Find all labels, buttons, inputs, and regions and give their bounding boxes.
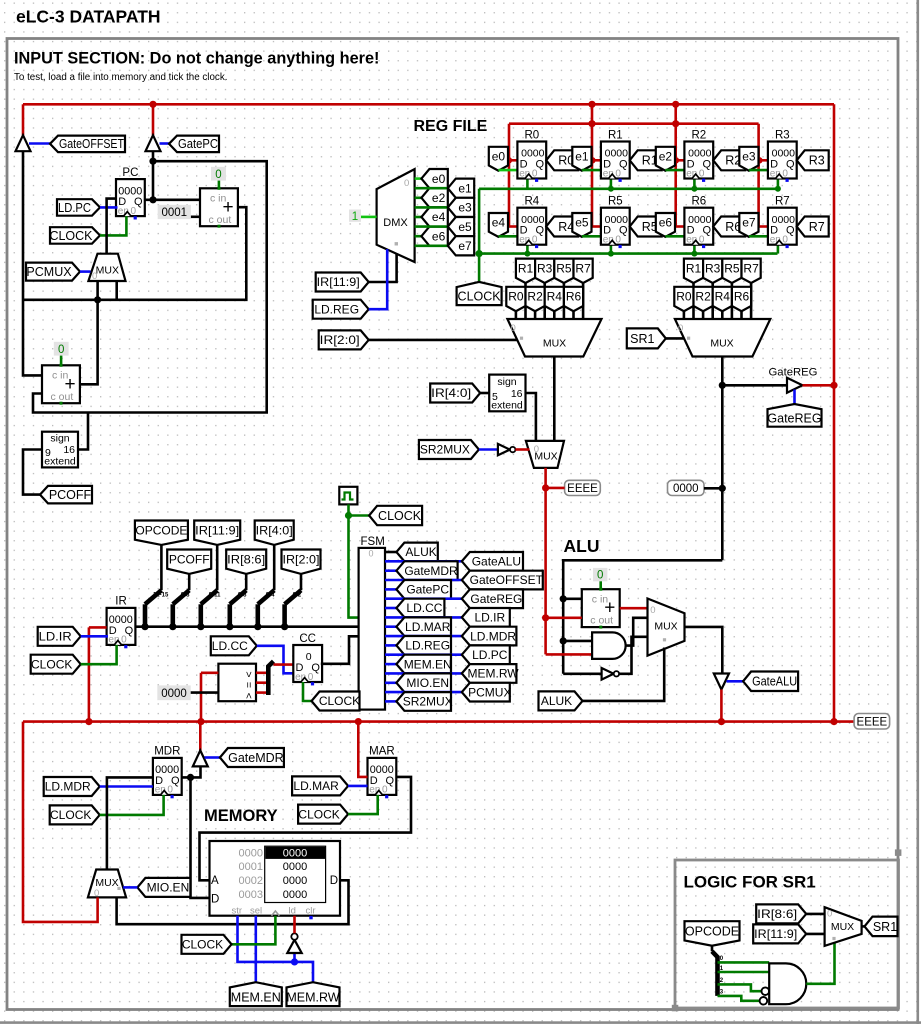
wire en e0 [498, 169, 517, 172]
wire sel R5 [731, 283, 734, 320]
svg-text:0: 0 [782, 168, 788, 179]
wire clock to PC [100, 216, 126, 235]
svg-text:MEM.EN: MEM.EN [404, 657, 452, 671]
wire MAR Q to memory A [200, 777, 412, 880]
mux SR2 read (left) [507, 319, 601, 357]
tunnel LD.CC [211, 636, 257, 655]
node B to adder [560, 595, 567, 602]
tunnel e5 (dmx) [448, 217, 474, 236]
svg-text:CLOCK: CLOCK [182, 938, 223, 952]
tunnel MEM.EN [230, 982, 282, 1006]
svg-text:R3: R3 [705, 262, 721, 276]
svg-text:0-4: 0-4 [266, 593, 275, 599]
tunnel R0 out [546, 150, 578, 170]
svg-text:GatePC: GatePC [178, 137, 218, 151]
tunnel e6 (dmx) [421, 227, 447, 246]
wire sel R6 [572, 311, 575, 319]
svg-text:EEEE: EEEE [857, 716, 888, 728]
node clock R4 [524, 251, 530, 257]
tunnel e7 (dmx) [448, 236, 474, 255]
svg-text:GateMDR: GateMDR [228, 751, 284, 765]
svg-text:0: 0 [404, 178, 409, 189]
svg-text:R4: R4 [547, 290, 563, 304]
mux SR1 read (right) [675, 319, 770, 357]
wire opcode bit1 [718, 971, 770, 974]
wire sel R7 [582, 283, 585, 320]
node bus right rail [830, 718, 837, 725]
svg-text:SR2MUX: SR2MUX [420, 443, 470, 457]
wire red drop R3 column [757, 124, 760, 227]
tunnel e5 [572, 213, 591, 237]
splitter IR[11:9] [216, 545, 219, 590]
tunnel R3 sel [535, 259, 554, 283]
wire D feed R0 [509, 159, 518, 162]
wire ALU mux out [685, 627, 723, 674]
svg-text:16: 16 [511, 388, 523, 400]
svg-text:R0: R0 [676, 290, 692, 304]
wire DMX out e7 [415, 245, 448, 248]
svg-text:0: 0 [215, 169, 221, 181]
register MAR [368, 758, 397, 795]
wire ALUK select [583, 648, 665, 701]
node 0000 probe tap [719, 485, 726, 492]
tunnel GatePC (fsm) [396, 580, 451, 599]
node clock tunnel tap [345, 512, 352, 519]
svg-text:MIO.EN: MIO.EN [147, 881, 190, 895]
wire IR4:0 to extender [480, 392, 489, 395]
wire LD.REG to DMX en [369, 249, 388, 309]
svg-text:MUX: MUX [654, 621, 677, 633]
svg-text:sign: sign [497, 376, 516, 388]
wire PC+offset net [23, 151, 42, 375]
wire MDR Q to memory D [191, 777, 210, 898]
tunnel LD.IR [38, 627, 81, 646]
node bus CC [197, 718, 204, 725]
svg-text:R1: R1 [608, 129, 623, 141]
wire sel R4 [553, 311, 556, 319]
svg-text:0: 0 [58, 344, 64, 356]
svg-text:GateOFFSET: GateOFFSET [470, 573, 544, 587]
tunnel R5 out [630, 217, 662, 237]
tunnel CLOCK (regfile) [457, 282, 502, 305]
wire red to GateMDR buffer [199, 722, 202, 751]
svg-text:REG FILE: REG FILE [414, 118, 488, 135]
tunnel LD.PC (fsm) [462, 645, 510, 664]
wire inverter out [515, 448, 529, 451]
svg-text:LD.PC: LD.PC [58, 201, 91, 215]
tunnel R1 out [630, 150, 662, 170]
tunnel GateALU (fsm) [462, 552, 523, 571]
constant 0001 [158, 205, 191, 219]
node bus MAR [355, 718, 362, 725]
svg-text:CC: CC [299, 633, 316, 645]
svg-text:R7: R7 [743, 262, 759, 276]
svg-text:e6: e6 [432, 229, 446, 243]
red power bus top [23, 103, 834, 106]
wire adder out [620, 607, 648, 610]
tunnel ALUK (fsm) [396, 543, 437, 562]
svg-text:R5: R5 [556, 262, 572, 276]
adder U3 (ALU) [582, 589, 620, 627]
svg-text:e1: e1 [458, 181, 472, 195]
svg-text:D: D [330, 875, 338, 887]
svg-text:LD.IR: LD.IR [39, 630, 72, 644]
tunnel SR2MUX (fsm) [396, 692, 451, 711]
constant 0 (offset adder cin) [54, 342, 69, 356]
tunnel R7 out [797, 217, 829, 237]
register PC [116, 179, 145, 216]
tunnel PCOFF (ir field) [167, 550, 211, 574]
node GateREG tap [719, 382, 726, 389]
node r1a [588, 101, 595, 108]
wire sign extend in [23, 450, 42, 495]
wire sel R1 [692, 283, 695, 320]
tunnel IR[2:0] (ir field) [282, 550, 321, 574]
wire FSM out LD.REG [385, 644, 396, 647]
wire probe 0000 [704, 487, 722, 490]
svg-text:0: 0 [308, 672, 314, 683]
register R1 [601, 142, 630, 179]
svg-text:e1: e1 [575, 150, 589, 164]
tunnel e0 [489, 147, 508, 171]
wire comparator B [191, 691, 219, 694]
splitter CC flags [256, 671, 266, 674]
wire clock R7 [777, 245, 780, 254]
svg-text:0001: 0001 [162, 207, 188, 219]
wire PCMUX input 2 drop [115, 281, 118, 300]
svg-text:R6: R6 [691, 196, 706, 208]
svg-text:e4: e4 [492, 216, 506, 230]
svg-text:PCOFF: PCOFF [169, 552, 210, 566]
svg-text:CLOCK: CLOCK [31, 657, 72, 671]
wire FSM out LD.MDR [385, 635, 462, 638]
wire D feed R2 [676, 159, 685, 162]
svg-text:0000: 0000 [239, 847, 263, 859]
wire red IR drop [88, 627, 91, 721]
tunnel e6 [656, 213, 675, 237]
wire CC clock [303, 682, 312, 701]
svg-text:SR1: SR1 [630, 332, 654, 346]
wire D feed R6 [676, 225, 685, 228]
svg-text:MUX: MUX [831, 921, 854, 933]
tunnel OPCODE (logic) [685, 921, 740, 946]
svg-text:<: < [243, 693, 255, 699]
svg-text:0: 0 [532, 168, 538, 179]
node str/rw [291, 958, 298, 965]
tunnel LD.PC [57, 199, 100, 216]
node r2b [672, 120, 679, 127]
wire PCMUX select [80, 270, 91, 273]
tunnel R3 sel [703, 259, 722, 283]
tunnel R1 sel [684, 259, 703, 283]
wire DMX out e3 [415, 206, 448, 209]
tunnel GateMDR [220, 748, 284, 767]
wire FSM out LD.PC [385, 653, 462, 656]
node splitter IR[8:6] [226, 623, 233, 630]
buffer GateREG (tri-state) [787, 378, 803, 393]
wire FSM out ALUK [385, 551, 396, 554]
wire sel R3 [543, 283, 546, 320]
wire clock R0 [526, 179, 529, 189]
svg-text:0: 0 [699, 235, 705, 246]
svg-text:ALUK: ALUK [541, 694, 572, 708]
svg-text:0: 0 [167, 785, 173, 796]
tunnel LD.IR (fsm) [462, 608, 510, 627]
tunnel R6 out [713, 217, 745, 237]
svg-text:SR2MUX: SR2MUX [403, 695, 453, 709]
svg-text:0: 0 [650, 605, 655, 616]
clock generator [339, 487, 357, 505]
wire D feed R5 [592, 225, 601, 228]
svg-text:MUX: MUX [96, 265, 119, 277]
tunnel R4 out [546, 217, 578, 237]
svg-text:0000: 0000 [283, 875, 307, 887]
splitter OPCODE [160, 545, 163, 590]
node A operand to adder [542, 614, 549, 621]
wire GateMDR control [205, 756, 220, 759]
IR output bus [135, 625, 358, 628]
wire opcode bit3 [718, 996, 760, 1001]
wire FSM out SR2MUX [385, 700, 396, 703]
wire adder out to PCMUX input 2 [98, 207, 247, 300]
splitter IR[4:0] [273, 545, 276, 590]
tunnel GatePC [169, 136, 219, 153]
svg-text:ld: ld [289, 906, 296, 917]
tunnel e2 [656, 147, 675, 171]
node PCMUX input 1 [94, 296, 101, 303]
svg-text:R2: R2 [527, 290, 543, 304]
tunnel LD.REG [313, 300, 369, 319]
svg-text:A: A [211, 875, 219, 887]
svg-text:MEM.RW: MEM.RW [468, 667, 520, 681]
wire D feed R3 [759, 159, 768, 162]
svg-text:R3: R3 [775, 129, 790, 141]
tunnel e7 [739, 213, 758, 237]
svg-text:GateREG: GateREG [470, 592, 522, 606]
svg-text:IR: IR [115, 596, 127, 608]
svg-text:0: 0 [597, 570, 603, 582]
inverted input bubble 3 [760, 997, 768, 1005]
adder U2 (PC+offset) [42, 365, 80, 403]
svg-text:CLOCK: CLOCK [298, 807, 339, 821]
svg-text:0: 0 [534, 444, 539, 455]
wire DMX out e6 [415, 235, 422, 238]
tunnel CLOCK (source) [369, 506, 422, 525]
svg-text:=: = [243, 682, 255, 688]
svg-text:ALUK: ALUK [405, 545, 436, 559]
node bus IR [85, 718, 92, 725]
svg-text:R4: R4 [524, 196, 539, 208]
wire memory Dout loop [117, 880, 349, 924]
node red bus / GatePC [149, 101, 156, 108]
wire en e2 [665, 169, 684, 172]
tunnel R7 sel [574, 259, 593, 283]
tunnel LD.MDR [44, 777, 100, 796]
wire LD.MAR [348, 785, 367, 788]
svg-text:LD.CC: LD.CC [406, 601, 442, 615]
svg-text:LD.IR: LD.IR [474, 611, 505, 625]
svg-text:IR[11:9]: IR[11:9] [754, 927, 797, 941]
svg-text:LD.MAR: LD.MAR [405, 620, 451, 634]
tunnel R2 out [713, 150, 745, 170]
svg-text:R3: R3 [809, 154, 825, 168]
tunnel IR[11:9] (dmx select) [316, 273, 369, 292]
constant 0000 (comparator) [157, 685, 190, 700]
tunnel R6 sel [732, 287, 751, 311]
red reg feed bus [509, 122, 759, 125]
svg-text:GateREG: GateREG [769, 366, 818, 378]
tunnel GateOFFSET (fsm) [462, 571, 543, 590]
node r2a [672, 101, 679, 108]
wire GateALU control [727, 680, 744, 683]
probe EEEE [565, 480, 601, 495]
buffer GatePC (tri-state) [146, 135, 161, 151]
tunnel ALUK [539, 691, 583, 710]
svg-text:e5: e5 [575, 216, 589, 230]
svg-text:e2: e2 [659, 150, 673, 164]
node splitter IR[4:0] [254, 623, 261, 630]
buffer GateMDR (tri-state) [193, 750, 208, 766]
tunnel SR1 (select) [627, 328, 666, 348]
probe EEEE (bus) [854, 714, 890, 730]
wire to GateREG buffer [722, 384, 787, 387]
svg-text:CLOCK: CLOCK [458, 290, 502, 304]
tunnel GateMDR (fsm) [396, 561, 457, 580]
wire PC Q net vertical [152, 151, 155, 200]
tunnel IR[11:9] (ir field) [194, 521, 240, 545]
svg-text:0: 0 [511, 323, 516, 334]
svg-text:0: 0 [121, 635, 127, 646]
wire sel R3 [711, 283, 714, 320]
svg-text:0: 0 [678, 323, 683, 334]
wire FSM out GatePC [385, 588, 396, 591]
register R6 [684, 208, 713, 245]
node splitter IR[11:9] [197, 623, 204, 630]
svg-text:GateOFFSET: GateOFFSET [59, 137, 124, 151]
svg-text:D: D [211, 894, 219, 906]
constant 0 (ALU adder cin) [593, 568, 607, 581]
svg-text:LD.PC: LD.PC [472, 648, 508, 662]
wire red drop R1 column [591, 104, 594, 226]
node D R1 [589, 157, 595, 163]
wire red drop R2 column [674, 104, 677, 226]
node splitter OPCODE [141, 623, 148, 630]
tunnel e0 (dmx) [421, 169, 447, 188]
svg-text:0: 0 [131, 206, 137, 217]
svg-text:IR[11:9]: IR[11:9] [317, 275, 360, 289]
tunnel CLOCK (PC) [50, 227, 100, 244]
svg-text:OPCODE: OPCODE [685, 924, 739, 938]
demux DMX [377, 169, 415, 262]
svg-text:MIO.EN: MIO.EN [406, 676, 449, 690]
tunnel MIO.EN (fsm) [396, 673, 451, 692]
svg-text:PCMUX: PCMUX [468, 685, 511, 699]
wire opcode bit2 [718, 984, 762, 991]
NOT gate (ALU) [602, 668, 614, 680]
register IR [107, 608, 136, 645]
wire DMX out e2 [415, 197, 422, 200]
tunnel R0 sel [506, 287, 525, 311]
node PC Q upper [149, 158, 156, 165]
tunnel LD.MDR (fsm) [462, 627, 517, 646]
wire CC D [274, 663, 294, 666]
logic box for SR1 [675, 860, 899, 1008]
svg-text:EEEE: EEEE [567, 483, 598, 495]
wire LD.PC to en [100, 206, 118, 209]
wire sel net [255, 916, 258, 983]
red result bus (EEEE) [23, 720, 854, 723]
svg-text:e7: e7 [458, 239, 472, 253]
svg-text:R1: R1 [686, 262, 702, 276]
svg-text:MEM.RW: MEM.RW [286, 990, 339, 1004]
wire cin 2 [60, 356, 63, 366]
wire FSM out LD.IR [385, 616, 462, 619]
tunnel MIO.EN [137, 878, 190, 897]
svg-text:0002: 0002 [239, 875, 263, 887]
svg-text:PCMUX: PCMUX [26, 265, 72, 279]
tunnel R7 sel [742, 259, 761, 283]
wire en e5 [582, 235, 601, 238]
svg-text:IR[2:0]: IR[2:0] [283, 552, 320, 566]
wire mux to SR1 [862, 925, 865, 928]
tunnel CLOCK (CC) [312, 692, 360, 711]
svg-text:0: 0 [94, 888, 99, 899]
mux SR1 select [825, 907, 862, 946]
svg-text:+: + [64, 374, 75, 395]
tunnel CLOCK (IR) [31, 655, 81, 674]
wire FSM out GateALU [385, 560, 462, 563]
tunnel R6 sel [564, 287, 583, 311]
window edge bottom [0, 1021, 921, 1024]
green clock bus row1 [479, 188, 777, 191]
splitter IR[8:6] [245, 574, 248, 590]
tunnel e3 (dmx) [448, 198, 474, 217]
tunnel R5 sel [554, 259, 573, 283]
green clock riser [478, 189, 481, 282]
node splitter IR[2:0] [281, 623, 288, 630]
svg-text:0000: 0000 [283, 848, 307, 860]
wire clock R2 [693, 179, 696, 189]
node D R2 [673, 157, 679, 163]
svg-text:16: 16 [63, 444, 75, 456]
node r1b [588, 120, 595, 127]
wire A operand to AND [546, 653, 593, 656]
wire LD.CC [257, 646, 294, 674]
tunnel LD.CC (fsm) [396, 599, 444, 618]
mux ALU result [648, 599, 685, 656]
svg-text:R2: R2 [695, 290, 711, 304]
wire sel R6 [740, 311, 743, 319]
node D R0 [506, 157, 512, 163]
wire sel R0 [515, 311, 518, 319]
wire FSM out PCMUX [385, 691, 462, 694]
wire memory clock [232, 916, 276, 945]
wire sel R2 [702, 311, 705, 319]
svg-text:PC: PC [122, 167, 138, 179]
svg-text:GateMDR: GateMDR [404, 564, 458, 578]
tunnel e2 (dmx) [421, 188, 447, 207]
wire en e1 [582, 169, 601, 172]
svg-text:FSM: FSM [361, 536, 385, 548]
svg-text:LD.CC: LD.CC [212, 639, 248, 653]
svg-text:R7: R7 [809, 220, 825, 234]
tunnel R5 sel [722, 259, 741, 283]
wire GatePC control [160, 142, 170, 145]
memory RAM [210, 841, 341, 916]
tunnel GateOFFSET [50, 136, 125, 153]
svg-text:LD.MAR: LD.MAR [293, 779, 339, 793]
svg-text:e4: e4 [432, 210, 446, 224]
